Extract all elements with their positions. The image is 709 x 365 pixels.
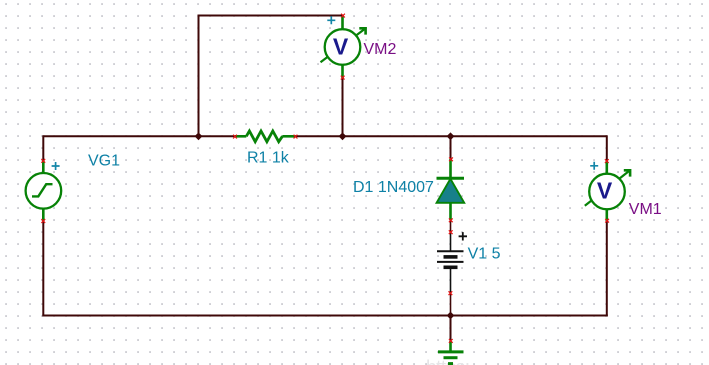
VG1 plus mark (52, 162, 60, 170)
voltmeter VM1 (585, 161, 630, 221)
terminal x V1 bottom (449, 291, 453, 295)
generator VG1 (26, 160, 62, 221)
junction at VM2 branch (339, 132, 347, 140)
wire left vertical upper (42, 135, 44, 160)
resistor R1 (235, 131, 296, 142)
svg-text:V1 5: V1 5 (468, 245, 501, 262)
VM2 plus mark (327, 16, 335, 24)
terminal x VG1 bottom (41, 219, 45, 223)
terminal x ground top (449, 339, 453, 343)
svg-text:VM2: VM2 (364, 41, 397, 58)
battery plus mark (459, 232, 467, 240)
svg-text:R1 1k: R1 1k (247, 149, 290, 166)
wire left vertical lower (42, 221, 44, 316)
svg-text:V: V (597, 178, 613, 204)
wire bottom to ground (450, 316, 452, 342)
battery V1 (437, 232, 464, 293)
terminal x VG1 top (41, 159, 45, 163)
junction at ground branch (447, 312, 455, 320)
wire battery to bottom (450, 293, 452, 316)
wire diode to battery (450, 220, 452, 232)
terminal x V1 top (449, 230, 453, 234)
svg-text:V: V (333, 34, 349, 60)
terminal x VM1 top (605, 159, 609, 163)
diode D1 (437, 159, 465, 220)
wire main left segment (43, 135, 235, 137)
terminal x D1 bottom (449, 218, 453, 222)
junction at diode branch (447, 132, 455, 140)
svg-text:VM1: VM1 (629, 201, 662, 218)
terminal x D1 top (449, 157, 453, 161)
terminal x R1 left (233, 135, 237, 139)
wire right vertical lower (606, 221, 608, 317)
terminal x R1 right (294, 135, 298, 139)
terminal x VM1 bottom (605, 219, 609, 223)
wire VM2 bottom to main (342, 78, 344, 136)
terminal x VM2 top (341, 14, 345, 18)
wire top horizontal (198, 15, 344, 17)
svg-text:VG1: VG1 (88, 153, 120, 170)
VM1 plus mark (590, 162, 598, 170)
junction at resistor left (195, 132, 203, 140)
wire bottom horizontal (42, 315, 608, 317)
wire main to diode (450, 136, 452, 159)
svg-text:D1 1N4007: D1 1N4007 (353, 179, 434, 196)
voltmeter VM2 (321, 16, 366, 78)
ground (438, 341, 464, 364)
wire right vertical upper (606, 135, 608, 161)
terminal x VM2 bottom (341, 76, 345, 80)
wire top-left vertical (198, 16, 200, 137)
wire main right segment (296, 135, 607, 137)
